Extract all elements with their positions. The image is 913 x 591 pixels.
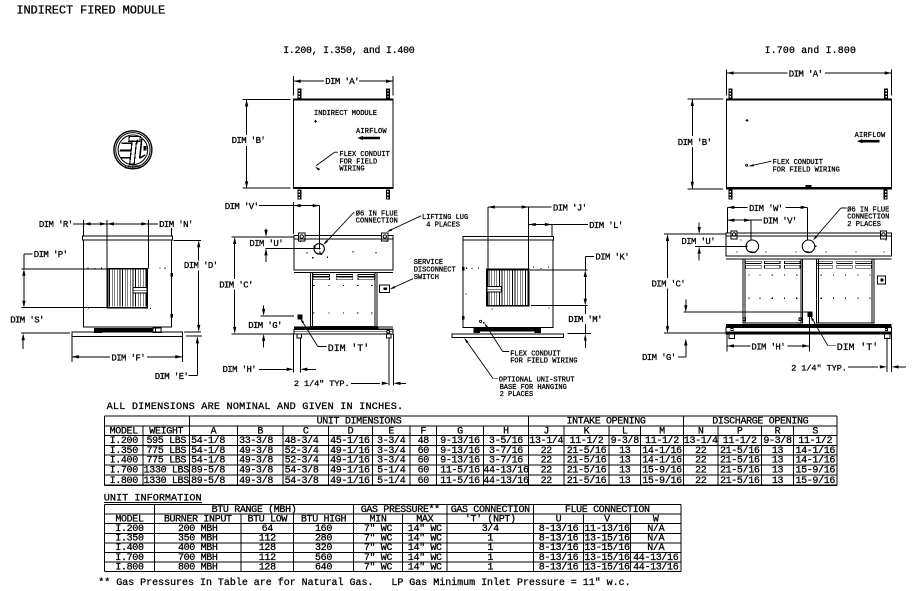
airflow arrow (I.200 top)	[357, 136, 380, 140]
dim V (I.700 front)	[727, 217, 796, 240]
front view upper cabinet (I.200)	[294, 239, 393, 270]
svg-text:DIM 'D': DIM 'D'	[184, 261, 218, 271]
svg-text:DIM 'U': DIM 'U'	[249, 239, 283, 249]
view heading I.700 and I.800	[765, 45, 857, 56]
dim F (I.200 left side)	[72, 336, 182, 363]
leader to service disconnect switch	[390, 279, 413, 290]
svg-text:LISTED: LISTED	[125, 165, 141, 171]
intake grille (I.200 left side)	[108, 269, 148, 308]
svg-text:AIRFLOW: AIRFLOW	[855, 132, 886, 140]
side view roof cap (I.200 left side)	[82, 236, 172, 240]
svg-text:DIM 'T': DIM 'T'	[837, 342, 878, 354]
svg-text:8-13/16: 8-13/16	[539, 561, 579, 573]
svg-text:DIM 'T': DIM 'T'	[328, 343, 369, 355]
top edge extension (I.200 front)	[232, 236, 294, 238]
svg-text:14" WC: 14" WC	[408, 561, 442, 573]
svg-text:22: 22	[541, 466, 553, 477]
top view box (I.700)	[727, 99, 892, 189]
svg-text:49-3/8: 49-3/8	[239, 465, 273, 477]
dim T leader and label (I.700 front)	[810, 316, 878, 354]
svg-text:60: 60	[418, 476, 430, 487]
leader to lifting lug	[387, 216, 421, 232]
dim M (I.200 right side)	[568, 306, 602, 348]
bottom edge extension (I.200 front)	[232, 333, 294, 335]
note FLEX CONDUIT FOR FIELD WIRING (I.200 top)	[339, 151, 389, 173]
dim C (I.700 front)	[652, 234, 686, 333]
svg-text:22: 22	[695, 466, 707, 477]
svg-text:DIM 'A': DIM 'A'	[325, 77, 359, 87]
lifting lug left (I.700 front)	[731, 231, 737, 239]
dim C (I.200 front)	[219, 237, 253, 334]
side view roof cap (I.200 right side)	[463, 237, 554, 240]
svg-text:44-13/16: 44-13/16	[483, 475, 529, 487]
svg-text:1330 LBS: 1330 LBS	[144, 476, 190, 487]
dim A (I.200 top)	[294, 76, 393, 95]
leader to flue connection (I.700)	[813, 208, 846, 240]
ETL listed mark	[114, 131, 152, 171]
svg-text:89-5/8: 89-5/8	[191, 465, 225, 477]
dim B (I.700 top)	[678, 99, 723, 189]
access door 1 (I.700 front)	[743, 259, 803, 323]
mid rail (I.700 front)	[726, 256, 892, 259]
svg-text:13: 13	[619, 476, 631, 487]
dim G (I.200 front)	[248, 305, 282, 347]
svg-text:44-13/16: 44-13/16	[483, 465, 529, 477]
dim J (I.200 right side)	[488, 203, 587, 269]
svg-text:DISCHARGE OPENING: DISCHARGE OPENING	[712, 417, 808, 428]
conduit height extension (I.700 front)	[684, 311, 808, 313]
svg-text:54-3/8: 54-3/8	[285, 465, 319, 477]
svg-text:21-5/16: 21-5/16	[720, 465, 760, 477]
foot left (I.700 front)	[729, 334, 735, 339]
dim U (I.200 front)	[249, 228, 320, 262]
svg-text:11-5/16: 11-5/16	[440, 465, 480, 477]
svg-text:DIM 'A': DIM 'A'	[789, 69, 823, 79]
svg-text:21-5/16: 21-5/16	[567, 475, 607, 487]
svg-text:DIM 'B': DIM 'B'	[232, 136, 266, 146]
label AIRFLOW (I.700 top)	[855, 132, 886, 140]
flue centre tick (I.700 top)	[806, 185, 812, 188]
door sill (I.200 front)	[294, 327, 393, 330]
svg-text:DIM 'H': DIM 'H'	[751, 342, 785, 352]
svg-text:I.800: I.800	[115, 562, 144, 573]
svg-text:DIM 'V': DIM 'V'	[225, 202, 259, 212]
dim 2 1/4 TYP (I.200 front)	[294, 334, 406, 389]
svg-text:5-1/4: 5-1/4	[377, 475, 406, 487]
conduit height extension (I.200 front)	[261, 315, 294, 317]
dim A (I.700 top)	[727, 69, 892, 95]
base channel (I.700 front)	[726, 327, 892, 334]
svg-text:DIM 'S': DIM 'S'	[10, 315, 44, 325]
intake grille (I.200 right side)	[487, 270, 529, 306]
svg-text:800 MBH: 800 MBH	[178, 562, 218, 573]
leader to flex conduit (I.700 top)	[746, 161, 772, 166]
dim H (I.700 front)	[727, 317, 809, 352]
svg-text:INDIRECT FIRED MODULE: INDIRECT FIRED MODULE	[16, 3, 165, 17]
dim R (I.200 left side)	[39, 220, 107, 230]
svg-text:4 PLACES: 4 PLACES	[426, 221, 460, 229]
svg-text:13: 13	[619, 466, 631, 477]
svg-text:INDIRECT MODULE: INDIRECT MODULE	[314, 110, 377, 118]
note ALL DIMENSIONS ARE NOMINAL	[107, 402, 404, 413]
dim T point (I.200 front)	[298, 314, 303, 319]
flex conduit stub (I.200 right side)	[480, 320, 485, 323]
centre mark (I.200 top)	[314, 120, 317, 123]
svg-text:I.700: I.700	[110, 466, 139, 477]
svg-text:DIM 'J': DIM 'J'	[553, 203, 587, 213]
svg-text:13: 13	[772, 476, 784, 487]
dim E (I.200 left side)	[155, 336, 202, 382]
svg-text:DIM 'M': DIM 'M'	[568, 315, 602, 325]
svg-text:21-5/16: 21-5/16	[720, 475, 760, 487]
side view cabinet (I.200 left side)	[84, 240, 172, 327]
svg-text:49-3/8: 49-3/8	[239, 475, 273, 487]
hinge marks (I.200 left side)	[171, 273, 174, 318]
dim N (I.200 left side)	[107, 220, 193, 230]
svg-text:DIM 'B': DIM 'B'	[678, 138, 712, 148]
svg-text:I.700 and I.800: I.700 and I.800	[765, 45, 857, 56]
flue connection collar 1 (I.700 front)	[745, 240, 758, 253]
svg-text:1: 1	[487, 562, 493, 573]
svg-text:11-5/16: 11-5/16	[440, 475, 480, 487]
svg-text:DIM 'P': DIM 'P'	[34, 250, 68, 260]
svg-text:DIM 'U': DIM 'U'	[681, 237, 715, 247]
lifting lug left (I.200 front)	[299, 233, 305, 241]
extension lines (dims R and N)	[84, 220, 172, 269]
top view box (I.200)	[294, 99, 393, 189]
note FLUE CONNECTION 2 PLACES (I.700)	[847, 205, 889, 228]
dim L (I.200 right side)	[529, 221, 623, 237]
mounting lug top-left (I.700 top)	[728, 88, 732, 98]
svg-text:DIM 'W': DIM 'W'	[749, 204, 783, 214]
mounting lug top-right (I.200 top)	[386, 88, 390, 98]
svg-text:** Gas Pressures In Table are: ** Gas Pressures In Table are for Natura…	[98, 577, 630, 589]
mounting lug bottom-left (I.200 top)	[297, 190, 301, 200]
svg-text:5-1/4: 5-1/4	[377, 465, 406, 477]
svg-text:21-5/16: 21-5/16	[567, 465, 607, 477]
svg-text:2 PLACES: 2 PLACES	[500, 391, 534, 399]
label INDIRECT MODULE	[314, 110, 377, 118]
svg-text:DIM 'E': DIM 'E'	[155, 372, 189, 382]
svg-text:89-5/8: 89-5/8	[191, 475, 225, 487]
svg-text:7" WC: 7" WC	[364, 561, 393, 573]
svg-text:13: 13	[772, 466, 784, 477]
unit dimensions table data rows	[110, 435, 836, 487]
front view upper cabinet (I.700)	[726, 236, 892, 256]
svg-text:DIM 'C': DIM 'C'	[652, 279, 686, 289]
svg-text:DIM 'K': DIM 'K'	[595, 252, 629, 262]
svg-text:15-9/16: 15-9/16	[795, 465, 835, 477]
svg-text:DIM 'G': DIM 'G'	[248, 321, 282, 331]
svg-text:128: 128	[259, 562, 276, 573]
flue connection collar (I.200 front)	[314, 244, 325, 255]
mounting lug bottom-right (I.700 top)	[884, 190, 888, 200]
service disconnect switch (I.200 front)	[380, 285, 390, 292]
svg-text:2 1/4" TYP.: 2 1/4" TYP.	[791, 363, 847, 373]
dim B (I.200 top)	[232, 99, 291, 188]
dim P (I.200 left side)	[22, 250, 108, 308]
svg-text:DIM 'G': DIM 'G'	[642, 353, 676, 363]
dim W (I.700 front)	[727, 204, 807, 240]
svg-text:DIM 'C': DIM 'C'	[219, 281, 253, 291]
dim D (I.200 left side)	[174, 240, 218, 332]
conduit point (I.700 front)	[807, 312, 812, 317]
dim S (I.200 left side)	[10, 315, 70, 349]
access door (I.200 front)	[310, 272, 377, 326]
note OPTIONAL UNI-STRUT BASE	[499, 377, 575, 400]
svg-text:60: 60	[418, 466, 430, 477]
svg-text:1330 LBS: 1330 LBS	[144, 466, 190, 477]
svg-text:SWITCH: SWITCH	[414, 274, 439, 282]
dim T leader and label (I.200 front)	[300, 318, 369, 355]
label AIRFLOW (I.200 top)	[356, 128, 387, 136]
mid rail (I.200 front)	[294, 270, 393, 273]
mounting lug top-left (I.200 top)	[297, 88, 301, 98]
svg-text:2 PLACES: 2 PLACES	[847, 221, 881, 229]
access door 2 (I.700 front)	[816, 259, 874, 323]
unit dimensions table header row	[110, 417, 819, 438]
lifting lug right (I.700 front)	[881, 231, 887, 239]
front view top rail (I.700)	[726, 233, 892, 236]
top edge extension (I.700 front)	[664, 233, 726, 235]
svg-text:49-1/16: 49-1/16	[330, 475, 370, 487]
mounting lug bottom-right (I.200 top)	[386, 190, 390, 200]
note FLEX CONDUIT FOR FIELD WIRING (I.200 right side)	[510, 350, 577, 365]
svg-text:22: 22	[695, 476, 707, 487]
foot right (I.700 front)	[885, 334, 891, 339]
centre mark (I.700 top)	[746, 119, 749, 122]
note FLEX CONDUIT FOR FIELD WIRING (I.700 top)	[773, 159, 840, 174]
svg-text:54-3/8: 54-3/8	[285, 475, 319, 487]
svg-text:CONNECTION: CONNECTION	[356, 218, 398, 226]
footnote gas pressures	[98, 577, 630, 589]
svg-text:DIM 'H': DIM 'H'	[223, 365, 257, 375]
base skid (I.200 left side)	[94, 328, 161, 333]
dim 2 1/4 TYP (I.700 front)	[791, 334, 906, 374]
service disconnect switch (I.700 front)	[878, 276, 886, 284]
unit information table data rows	[115, 523, 678, 573]
svg-text:44-13/16: 44-13/16	[633, 561, 679, 573]
bottom edge extension (I.700 front)	[664, 332, 726, 334]
dim G (I.700 front)	[642, 299, 687, 363]
svg-text:FOR FIELD WIRING: FOR FIELD WIRING	[773, 166, 840, 174]
mounting lug top-right (I.700 top)	[884, 88, 888, 98]
svg-text:I.800: I.800	[110, 476, 139, 487]
svg-text:49-1/16: 49-1/16	[330, 465, 370, 477]
svg-text:DIM 'F': DIM 'F'	[111, 353, 145, 363]
svg-text:INTAKE OPENING: INTAKE OPENING	[566, 417, 645, 428]
uni-strut base plate (I.200 right side)	[452, 334, 563, 337]
hinge marks (I.200 right side)	[462, 267, 465, 319]
foot right (I.200 front)	[387, 334, 391, 338]
leader to flue connection (I.200)	[323, 212, 354, 245]
svg-text:DIM 'V': DIM 'V'	[763, 217, 797, 227]
dim V (I.200)	[225, 202, 320, 250]
svg-text:I.200, I.350, and I.400: I.200, I.350, and I.400	[283, 45, 415, 56]
dim K (I.200 right side)	[530, 252, 629, 305]
lifting lug right (I.200 front)	[382, 233, 388, 241]
unit information table header rows	[115, 504, 659, 526]
side view cabinet (I.200 right side)	[463, 240, 553, 327]
door sill (I.700 front)	[726, 324, 892, 327]
svg-text:DIM 'R': DIM 'R'	[39, 220, 73, 230]
svg-text:13-15/16: 13-15/16	[584, 561, 630, 573]
front view top rail (I.200)	[294, 236, 393, 239]
base skid (I.200 right side)	[473, 328, 541, 333]
svg-text:FOR FIELD WIRING: FOR FIELD WIRING	[510, 358, 577, 366]
heading UNIT INFORMATION	[104, 493, 202, 504]
drawing title	[16, 3, 165, 17]
uni-strut base plate (I.200 left side)	[72, 332, 182, 336]
note FLUE CONNECTION (I.200)	[356, 209, 398, 225]
svg-text:15-9/16: 15-9/16	[642, 475, 682, 487]
svg-text:15-9/16: 15-9/16	[795, 475, 835, 487]
unit dimensions table grid	[105, 416, 838, 485]
svg-text:DIM 'N': DIM 'N'	[159, 220, 193, 230]
note SERVICE DISCONNECT SWITCH	[414, 259, 456, 282]
svg-text:15-9/16: 15-9/16	[642, 465, 682, 477]
leader to flex conduit (I.200 top)	[315, 152, 338, 171]
dim H (I.200 front)	[223, 334, 317, 375]
dim U (I.700 front)	[681, 222, 746, 260]
foot left (I.200 front)	[297, 334, 301, 338]
leader to uni-strut base plate	[464, 338, 498, 378]
leader to flex conduit (I.200 right side)	[484, 323, 509, 351]
svg-text:2 1/4" TYP.: 2 1/4" TYP.	[294, 379, 350, 389]
svg-text:WIRING: WIRING	[339, 166, 364, 174]
svg-text:22: 22	[541, 476, 553, 487]
view heading I.200, I.350, and I.400	[283, 45, 415, 56]
svg-text:640: 640	[315, 562, 332, 573]
svg-text:AIRFLOW: AIRFLOW	[356, 128, 387, 136]
flue connection collar 2 (I.700 front)	[802, 240, 816, 253]
note LIFTING LUG 4 PLACES	[422, 214, 468, 229]
svg-text:ALL DIMENSIONS ARE NOMINAL AND: ALL DIMENSIONS ARE NOMINAL AND GIVEN IN …	[107, 402, 404, 413]
mounting lug bottom-left (I.700 top)	[728, 190, 732, 200]
unit information table grid	[105, 505, 682, 572]
base channel (I.200 front)	[294, 329, 393, 334]
svg-text:DIM 'L': DIM 'L'	[589, 221, 623, 231]
airflow arrow (I.700 top)	[857, 139, 880, 143]
